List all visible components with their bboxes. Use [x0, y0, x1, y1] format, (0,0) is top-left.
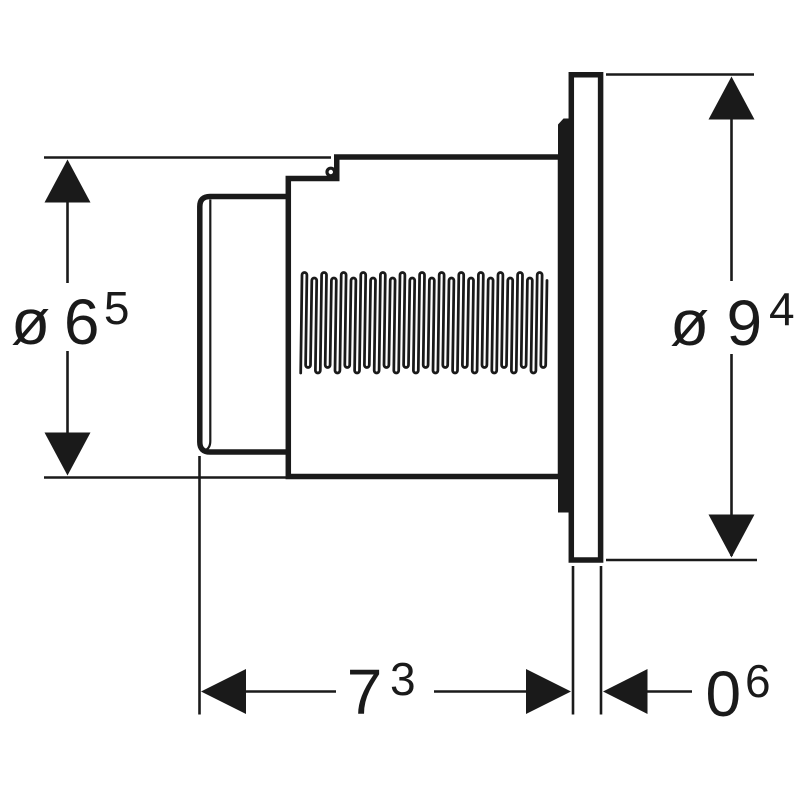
svg-text:9: 9 [727, 287, 763, 359]
arrow d94 down [709, 515, 755, 558]
svg-text:7: 7 [347, 656, 383, 728]
dimension line d65 lower [66, 351, 69, 473]
extension line 73 left [198, 456, 201, 715]
svg-text:5: 5 [104, 282, 130, 334]
svg-text:3: 3 [390, 653, 416, 705]
dimension line d94 upper [730, 79, 733, 281]
dimension line 06 [648, 690, 693, 693]
dimension line 73 left segment [246, 690, 336, 693]
dimension line d65 upper [66, 162, 69, 283]
arrow d65 up [45, 160, 91, 203]
extension line top-right [606, 73, 754, 76]
svg-text:4: 4 [769, 283, 795, 335]
extension line bottom-left [44, 476, 290, 479]
neck bar [558, 119, 574, 519]
svg-text:6: 6 [64, 286, 100, 358]
arrow d65 down [45, 433, 91, 476]
svg-text:6: 6 [745, 655, 771, 707]
arrow 73 right [526, 669, 571, 714]
svg-text:0: 0 [706, 658, 742, 730]
extension line bottom-right [606, 559, 757, 562]
threads [301, 273, 547, 373]
arrow d94 up [709, 77, 755, 120]
main body [288, 157, 560, 477]
svg-text:ø: ø [670, 287, 709, 359]
svg-text:ø: ø [11, 286, 50, 358]
extension line flange left [572, 566, 575, 715]
push button cylinder [200, 197, 290, 453]
circle detail at step [327, 168, 335, 176]
button face edge line [204, 200, 210, 451]
dimension line d94 lower [730, 354, 733, 556]
extension line top-left [44, 156, 331, 159]
flange [571, 75, 600, 560]
dimension line 73 right segment [434, 690, 526, 693]
arrow 06 [603, 669, 648, 714]
extension line flange right [600, 566, 603, 715]
arrow 73 left [201, 669, 246, 714]
